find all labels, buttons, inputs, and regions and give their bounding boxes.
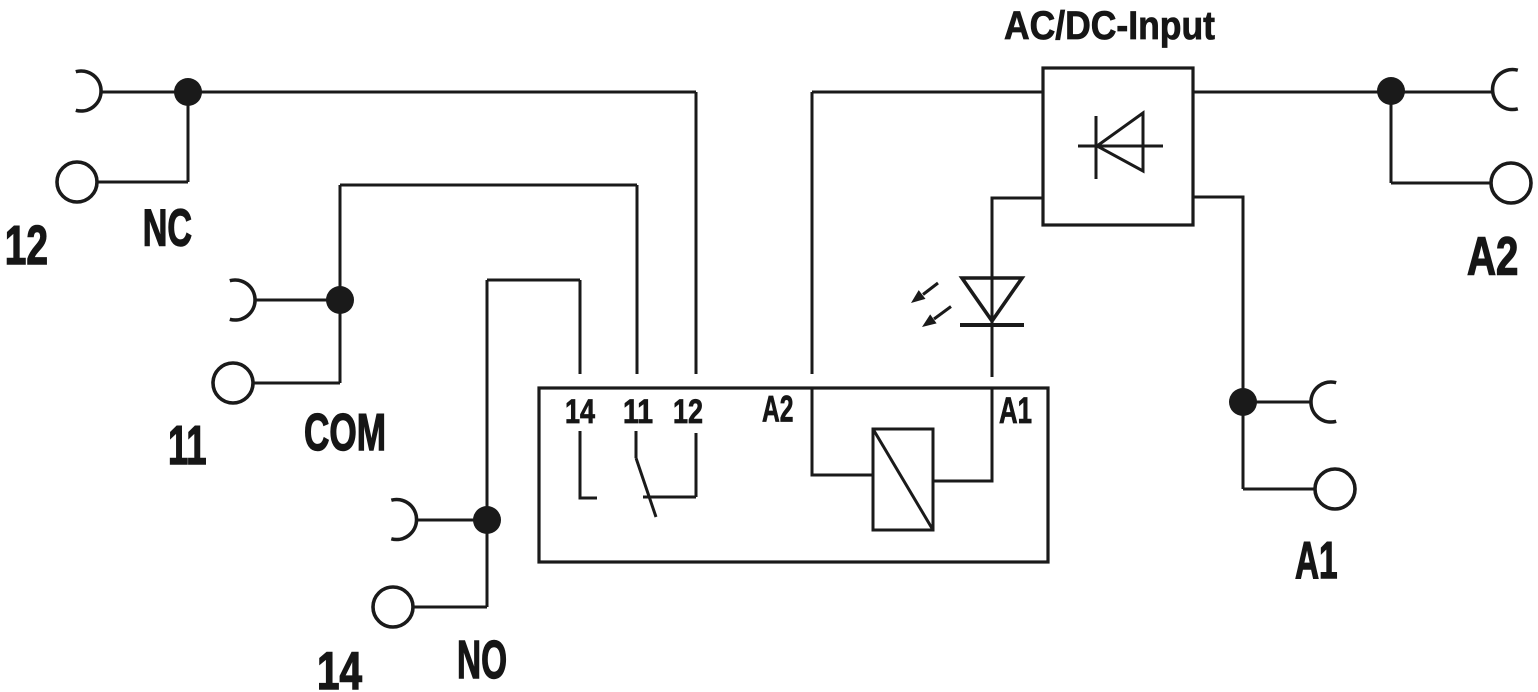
terminal circle A1 <box>1315 469 1355 509</box>
diode V1 triangle <box>1097 113 1143 171</box>
svg-text:14: 14 <box>317 642 362 692</box>
terminal socket contact 14 (NO) <box>391 500 416 540</box>
wire: socket 14 to node <box>416 519 487 522</box>
wire: to terminal circle A1 <box>1243 488 1315 491</box>
wire: pin 12 riser down to relay box <box>695 92 698 374</box>
node: A2 junction <box>1377 77 1405 105</box>
wire: pin 14 riser down to relay box <box>579 280 582 374</box>
svg-text:11: 11 <box>623 393 653 431</box>
wire: rectifier box right to A2 node <box>1193 91 1492 94</box>
svg-text:AC/DC-Input: AC/DC-Input <box>1004 4 1215 48</box>
wire: to terminal circle A2 <box>1391 182 1491 185</box>
relay coil K1 <box>873 429 933 530</box>
svg-text:A1: A1 <box>999 390 1032 431</box>
wire: NC node to relay pin 12 riser <box>188 91 696 94</box>
wire: A2 node down <box>1390 92 1393 183</box>
wire: NC node down <box>187 92 190 182</box>
wire: COM node down <box>339 300 342 383</box>
wire: to terminal circle 14 <box>414 606 487 609</box>
svg-text:A2: A2 <box>1467 227 1518 287</box>
terminal circle A2 <box>1491 163 1531 203</box>
LED emission arrow 2 <box>922 307 951 328</box>
wire: COM run to relay pin 11 riser <box>340 184 637 187</box>
wire: to terminal circle 12 <box>98 181 188 184</box>
wire: socket 12 to node <box>100 91 188 94</box>
relay module box K1 <box>539 388 1048 562</box>
wire: rectifier bottom-left to LED <box>992 198 1043 377</box>
terminal socket contact 12 (NC) <box>76 71 101 111</box>
svg-text:14: 14 <box>565 393 595 431</box>
wire: socket 11 to node <box>254 299 340 302</box>
node: NO junction <box>473 506 501 534</box>
wire: A1 node to socket A2 <box>1243 401 1311 404</box>
wire: COM node up <box>339 185 342 300</box>
pin 12 contact: vertical <box>695 433 698 497</box>
terminal socket contact 11 (COM) <box>230 280 255 320</box>
node: NC junction <box>174 78 202 106</box>
contact arm (movable, 11 to 12) <box>636 458 656 517</box>
terminal circle 14 <box>373 587 413 627</box>
diode V1 horizontal lead <box>1078 145 1163 148</box>
svg-text:A2: A2 <box>762 389 794 430</box>
wire: to terminal circle 11 <box>254 382 340 385</box>
svg-text:NC: NC <box>143 200 192 258</box>
wire: rectifier bottom-right down to A1 node <box>1193 197 1243 489</box>
terminal socket contact A2 <box>1493 69 1518 109</box>
node: A1 junction <box>1229 388 1257 416</box>
wire: A1 pin into box down to coil <box>933 388 992 481</box>
wire: NO node up <box>486 280 489 520</box>
pin 12 contact: horizontal seat <box>643 496 696 499</box>
node: COM junction <box>326 286 354 314</box>
diode V1 cathode bar <box>1095 116 1098 179</box>
wire: NO node down <box>486 520 489 607</box>
pin 14 contact: vertical + foot <box>580 431 597 498</box>
svg-text:12: 12 <box>673 393 703 431</box>
svg-text:12: 12 <box>5 214 48 276</box>
wire: NO run to relay pin 14 riser <box>487 279 580 282</box>
LED V2 cathode bar <box>960 323 1024 327</box>
terminal circle 12 <box>57 162 97 202</box>
wire: A2 run from relay riser to rectifier box <box>812 91 1043 94</box>
LED emission arrow 1 <box>911 283 938 303</box>
wire: pin 11 riser down to relay box <box>636 185 639 374</box>
pin 11 contact: vertical <box>635 431 638 458</box>
svg-text:NO: NO <box>457 630 507 690</box>
AC/DC input rectifier box U1 <box>1043 68 1193 225</box>
wire: A2 pin into box down to coil <box>812 388 873 475</box>
wire: A2 riser down to relay box <box>811 92 814 374</box>
terminal circle 11 <box>213 363 253 403</box>
terminal socket contact A1 <box>1311 382 1336 422</box>
LED V2 triangle <box>962 278 1022 321</box>
svg-text:11: 11 <box>168 414 207 476</box>
svg-text:COM: COM <box>304 404 386 462</box>
coil diagonal <box>873 429 933 530</box>
svg-text:A1: A1 <box>1295 532 1338 590</box>
